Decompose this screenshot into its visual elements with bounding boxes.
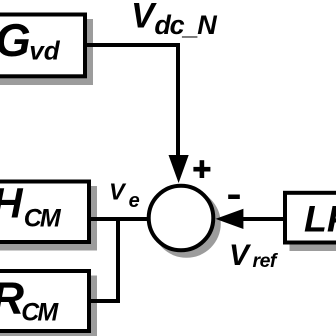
svg-text:V: V	[229, 239, 252, 272]
svg-text:CM: CM	[24, 205, 62, 233]
wire junction vertical branch to R_CM	[116, 217, 120, 301]
arrowhead into summing node right	[216, 209, 244, 229]
block G_vd	[0, 15, 85, 77]
summing junction shadow	[152, 189, 221, 258]
block H_CM shadow	[0, 186, 97, 251]
arrowhead into summing node top	[169, 155, 189, 183]
summing junction U1	[149, 186, 214, 251]
wire from LPF to summing node	[242, 217, 285, 221]
wire from H_CM to summing node (error signal)	[87, 217, 148, 221]
minus sign	[228, 195, 240, 200]
svg-text:ref: ref	[253, 250, 279, 272]
wire from G_vd to summing node (top)	[85, 45, 178, 156]
wire from R_CM output	[87, 299, 120, 303]
block LPF	[285, 193, 336, 243]
svg-text:e: e	[129, 190, 140, 212]
block LPF shadow	[290, 197, 336, 251]
svg-text:CM: CM	[21, 299, 59, 327]
plus sign	[193, 167, 210, 172]
svg-text:H: H	[0, 180, 24, 228]
block R_CM shadow	[0, 276, 97, 336]
svg-text:LPF: LPF	[304, 198, 336, 240]
svg-text:V: V	[109, 178, 127, 204]
block G_vd shadow	[0, 19, 93, 85]
block H_CM	[0, 182, 89, 243]
block R_CM	[0, 271, 89, 331]
